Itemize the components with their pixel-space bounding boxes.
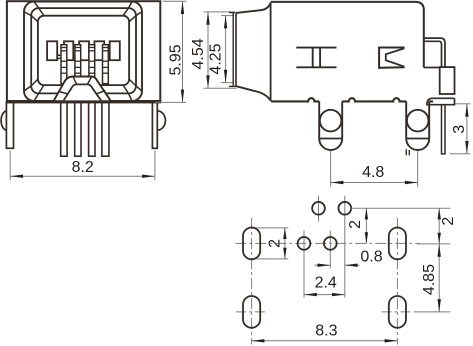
latch tab right xyxy=(424,38,445,67)
arrows left 2 xyxy=(283,228,286,239)
svg-text:5.95: 5.95 xyxy=(168,44,185,75)
dim 8.2 ext lines xyxy=(9,151,11,181)
horizontal dashes bottom-right pad xyxy=(382,311,414,313)
pad bottom-right xyxy=(389,296,406,328)
right 2 ext/dim xyxy=(352,207,451,209)
through pin xyxy=(442,105,446,154)
contact pin rungs xyxy=(61,48,108,74)
footprint dims xyxy=(252,208,451,340)
contact rail lines xyxy=(47,54,120,56)
side body top and right edge xyxy=(271,2,424,68)
4.85 dim xyxy=(438,244,440,312)
arrows 2.4 xyxy=(304,293,317,296)
dim 5.95 line xyxy=(182,1,184,102)
hole C xyxy=(298,237,311,250)
H feature xyxy=(296,48,336,68)
dim 4.8 line xyxy=(331,182,418,184)
8.3 dim xyxy=(252,340,398,342)
dim 4.54 line xyxy=(207,12,209,88)
side flange face xyxy=(232,13,234,87)
2.4 dim xyxy=(304,294,345,296)
shell inner xyxy=(31,8,136,93)
center 2 dim xyxy=(365,208,367,243)
svg-text:8.3: 8.3 xyxy=(315,322,337,339)
center lines xyxy=(235,196,419,345)
horizontal dashes bottom-left pad xyxy=(236,311,268,313)
corner chamfer wedge marks xyxy=(24,2,142,101)
dome inner xyxy=(64,84,101,100)
foot xyxy=(427,98,455,104)
left tab xyxy=(1,111,6,130)
dim 4.25 line xyxy=(225,16,227,83)
pad top-left xyxy=(243,228,260,260)
dim 3 line xyxy=(466,104,468,154)
peg 2 xyxy=(406,101,429,150)
svg-text:4.25: 4.25 xyxy=(208,43,225,74)
svg-text:8.2: 8.2 xyxy=(72,159,94,176)
side cone bottom xyxy=(237,86,271,101)
pad top-right xyxy=(389,228,406,260)
arrows 0.8 xyxy=(318,264,331,267)
contact housing rects x5 xyxy=(47,41,120,60)
pads xyxy=(243,202,406,328)
front pins below x4 xyxy=(61,102,109,156)
svg-text:2: 2 xyxy=(267,239,284,248)
svg-text:2: 2 xyxy=(440,217,457,226)
arrows right 2 xyxy=(438,208,441,219)
dim 8.2 line xyxy=(10,175,155,177)
hole A xyxy=(312,202,325,215)
dim 4.8 ext lines xyxy=(330,151,332,187)
left 2 ext xyxy=(256,227,288,229)
shroud rect xyxy=(440,67,455,94)
side cone top xyxy=(236,2,271,13)
dim 3 ext lines xyxy=(455,103,470,105)
svg-text:4.85: 4.85 xyxy=(421,264,438,295)
vertical centerline right pads xyxy=(396,218,398,345)
side body bottom-right ledge xyxy=(424,67,440,69)
arrows 4.85 xyxy=(438,244,441,257)
svg-text:0.8: 0.8 xyxy=(360,249,382,266)
side bottom edge with bumps xyxy=(271,98,433,101)
svg-text:2.4: 2.4 xyxy=(315,275,337,292)
arrows front dims xyxy=(10,1,227,178)
dome radial marks xyxy=(59,77,105,95)
dims side view xyxy=(331,104,471,187)
side flange back edge xyxy=(270,2,272,101)
svg-text:4.8: 4.8 xyxy=(362,164,384,181)
hole B xyxy=(338,202,351,215)
svg-text:3: 3 xyxy=(451,125,468,134)
front view base line xyxy=(7,100,160,103)
vertical centerline left pads xyxy=(251,218,253,345)
svg-text:4.54: 4.54 xyxy=(190,38,207,69)
arrows center 2 xyxy=(365,208,368,219)
front left leg xyxy=(6,102,13,148)
0.8 dim xyxy=(315,264,331,266)
front right leg xyxy=(152,102,157,148)
side lip stubs xyxy=(229,12,235,14)
hole D xyxy=(324,237,337,250)
hole centerlines xyxy=(318,196,320,222)
horizontal centerline pad row xyxy=(235,242,419,244)
latch glyph xyxy=(379,48,405,68)
opening xyxy=(38,16,129,85)
pad bottom-left xyxy=(243,296,260,328)
shell outer xyxy=(24,2,142,101)
peg 1 xyxy=(319,101,342,150)
front view body outline xyxy=(7,1,160,102)
dome outer xyxy=(54,77,110,101)
right tab xyxy=(157,111,165,130)
dim 4.54 ext lines xyxy=(204,11,236,13)
contact pins x4 (upper) xyxy=(61,45,108,84)
svg-text:2: 2 xyxy=(347,220,364,229)
dim 4.25 ext lines xyxy=(221,15,234,17)
peg 2 pin stub xyxy=(406,149,409,155)
arrows 8.3 xyxy=(252,339,265,342)
dim 5.95 ext lines xyxy=(163,0,187,2)
